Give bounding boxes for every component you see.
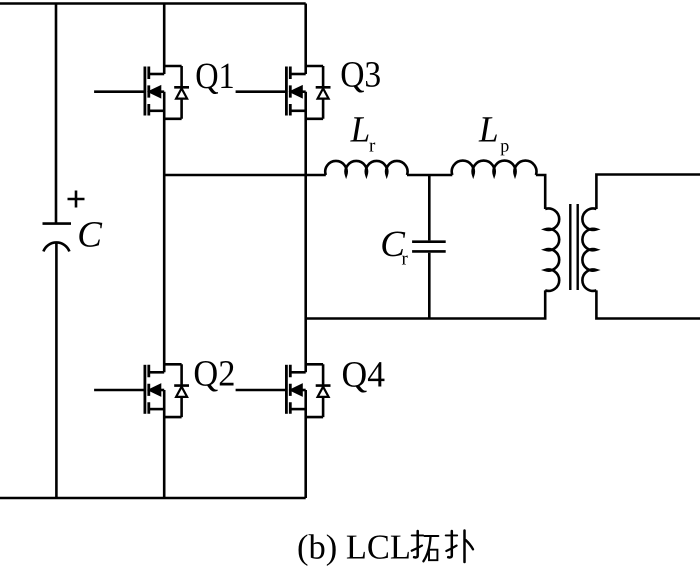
wire Lr to Lp — [407, 174, 452, 177]
wire right leg source segment Q4 — [304, 390, 307, 498]
caption hanzi tuo (拓) — [412, 531, 439, 561]
gate electrode Q4 — [285, 365, 288, 414]
svg-text:Q1: Q1 — [195, 56, 235, 97]
gate lead Q2 — [94, 389, 145, 392]
wire bridge mid output to Lr — [164, 174, 326, 177]
source connection Q2 — [149, 408, 164, 411]
body arrow Q2 — [150, 385, 160, 395]
caption hanzi pu (扑) — [446, 531, 473, 563]
gate lead Q3 — [236, 90, 287, 93]
drain connection Q2 — [149, 371, 164, 374]
drain connection Q4 — [290, 371, 305, 374]
transistor Q2 — [94, 364, 189, 417]
channel segments Q4 — [289, 365, 292, 414]
source connection Q4 — [290, 408, 305, 411]
gate electrode Q3 — [285, 67, 288, 116]
transistor Q1 — [94, 66, 189, 119]
channel segments Q2 — [147, 365, 150, 414]
wire left leg middle segment — [163, 92, 166, 373]
svg-text:r: r — [369, 136, 376, 157]
capacitor C lead bottom — [55, 243, 58, 498]
capacitor Cr lead bottom — [428, 253, 431, 319]
body diode triangle Q4 — [318, 387, 329, 397]
svg-text:Q2: Q2 — [193, 353, 235, 394]
source connection Q3 — [290, 110, 305, 113]
inductor Lp — [452, 161, 537, 175]
body diode wiring Q2 — [164, 364, 189, 417]
body diode triangle Q2 — [176, 387, 187, 397]
transistor Q4 — [236, 364, 331, 417]
wire secondary bottom lead — [596, 290, 700, 318]
body arrow Q4 — [292, 385, 302, 395]
wire transformer primary bottom return to right leg — [306, 290, 546, 318]
source connection Q1 — [149, 110, 164, 113]
body diode triangle Q3 — [318, 88, 329, 98]
body arrow Q3 — [292, 87, 302, 97]
svg-text:Q4: Q4 — [342, 355, 386, 396]
channel segments Q1 — [147, 67, 150, 116]
svg-text:Q3: Q3 — [340, 55, 381, 96]
capacitor C curved plate — [43, 242, 69, 251]
svg-text:L: L — [478, 110, 498, 151]
inductor Lr — [325, 161, 407, 175]
capacitor C flat plate — [43, 222, 72, 225]
capacitor C lead top — [55, 4, 58, 223]
transistor Q3 — [236, 66, 331, 119]
transformer core — [570, 204, 577, 290]
wire top DC bus — [0, 2, 306, 5]
drain connection Q3 — [290, 73, 305, 76]
wire right leg middle segment — [304, 92, 307, 373]
gate lead Q1 — [94, 90, 145, 93]
wire secondary top lead — [596, 175, 700, 210]
capacitor Cr lead top — [428, 175, 431, 240]
body diode triangle Q1 — [176, 88, 187, 98]
gate electrode Q2 — [143, 365, 146, 414]
wire Lp to transformer primary top — [536, 175, 545, 209]
body diode wiring Q3 — [306, 66, 331, 119]
body connection Q2 — [158, 389, 164, 392]
svg-text:p: p — [500, 136, 509, 156]
body arrow Q1 — [150, 87, 160, 97]
plus sign polarity mark — [68, 191, 85, 208]
svg-text:C: C — [77, 215, 103, 256]
wire left leg drain segment Q1 — [163, 4, 166, 75]
body connection Q3 — [300, 90, 306, 93]
svg-text:r: r — [402, 249, 409, 270]
body diode wiring Q1 — [164, 66, 189, 119]
wire bottom DC bus — [0, 497, 306, 500]
svg-text:(b) LCL: (b) LCL — [297, 527, 411, 566]
transformer secondary winding — [582, 208, 596, 290]
wire left leg source segment Q2 — [163, 390, 166, 498]
gate electrode Q1 — [143, 67, 146, 116]
channel segments Q3 — [289, 67, 292, 116]
body connection Q4 — [300, 389, 306, 392]
drain connection Q1 — [149, 73, 164, 76]
body connection Q1 — [158, 90, 164, 93]
body diode wiring Q4 — [306, 364, 331, 417]
transformer primary winding — [545, 208, 559, 290]
gate lead Q4 — [236, 389, 287, 392]
capacitor Cr plates — [412, 242, 446, 252]
wire right leg drain segment Q3 — [304, 4, 307, 75]
svg-text:L: L — [350, 110, 370, 151]
